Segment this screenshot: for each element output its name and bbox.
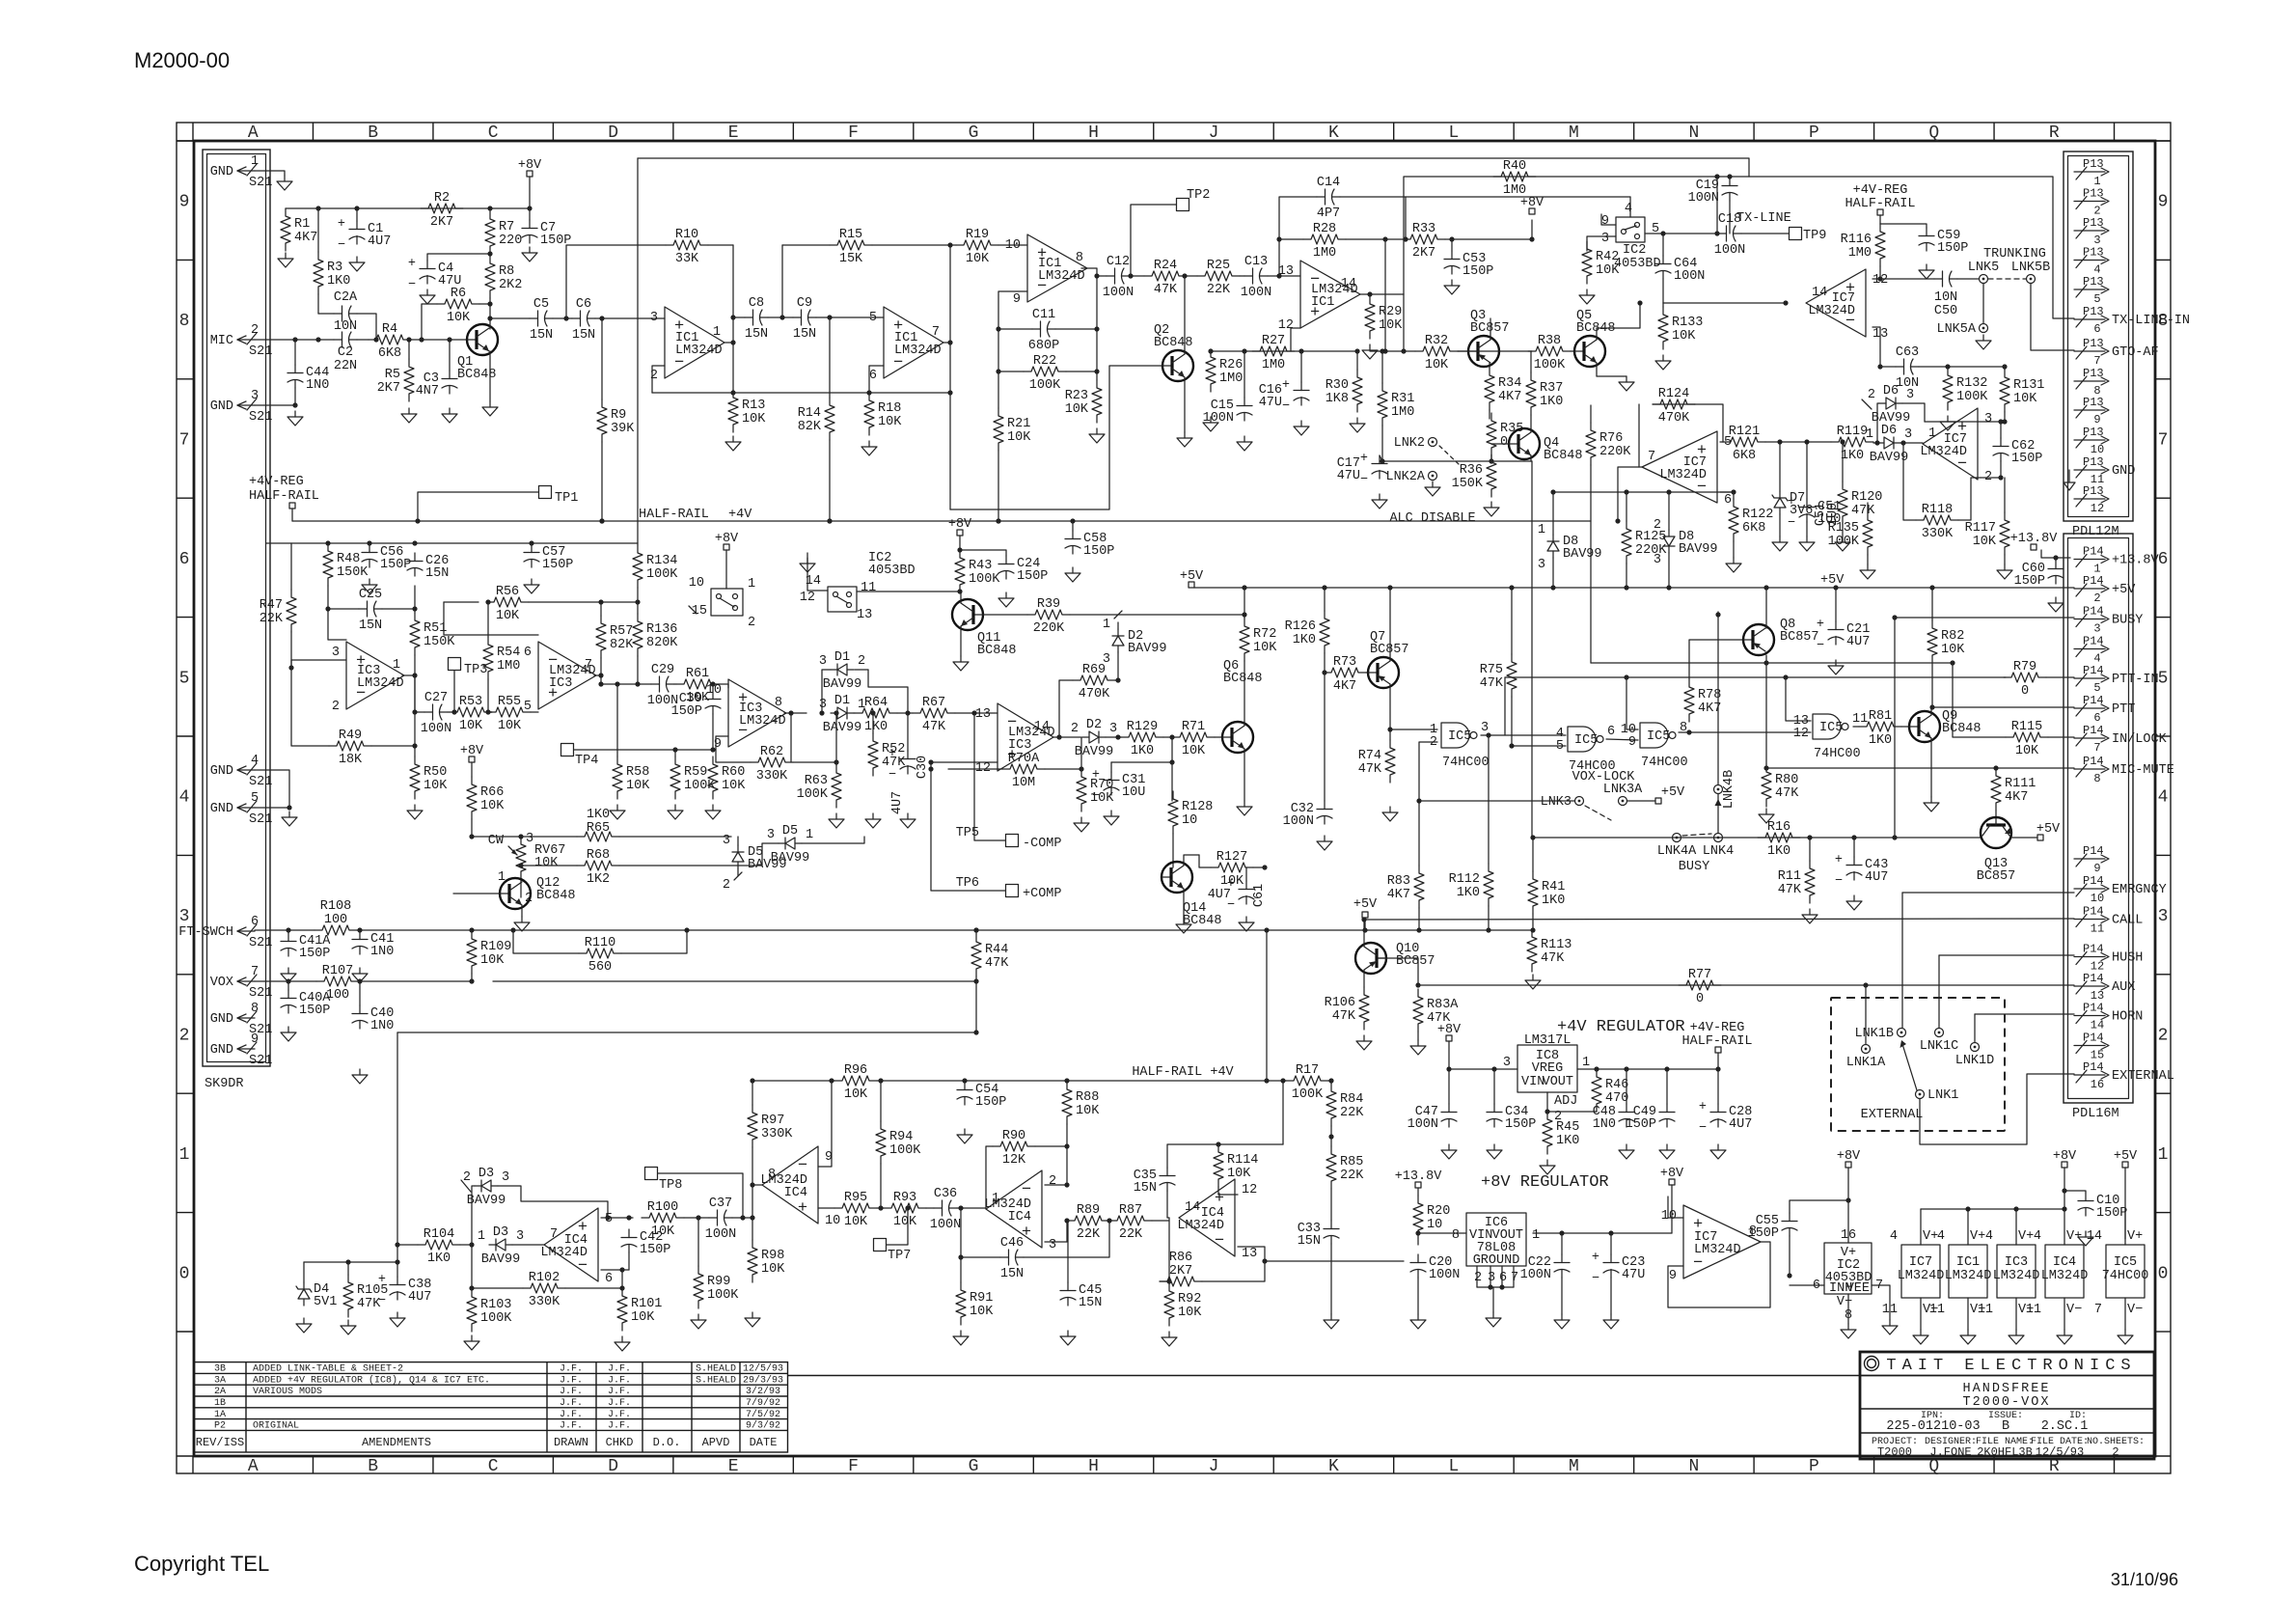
wire IC3b out line	[601, 683, 651, 685]
svg-text:IC4: IC4	[784, 1186, 807, 1200]
svg-text:820K: 820K	[646, 636, 678, 650]
svg-text:APVD: APVD	[702, 1436, 730, 1449]
svg-text:LM324D: LM324D	[1808, 304, 1855, 318]
svg-text:2: 2	[2158, 1027, 2169, 1046]
wire IC3d output	[1053, 736, 1080, 738]
svg-text:R128: R128	[1182, 800, 1213, 814]
svg-text:T2000: T2000	[1877, 1445, 1912, 1459]
wire IC7 V-	[1920, 1298, 1922, 1330]
svg-text:LM324D: LM324D	[357, 676, 404, 691]
svg-text:10K: 10K	[2013, 392, 2037, 406]
wire	[1115, 679, 1118, 681]
resistor R116	[1841, 224, 1885, 266]
wire IC7b output stub	[1618, 467, 1642, 521]
wire IC4d pin6 loop	[601, 1269, 629, 1271]
resistor R41	[1528, 871, 1565, 914]
transistor Q12	[500, 876, 576, 909]
grid column divider	[1153, 123, 1155, 141]
capacitor C32	[1283, 801, 1332, 829]
wire D3 pin2 slash	[461, 1180, 471, 1192]
resistor R61	[676, 667, 719, 705]
wire	[802, 837, 864, 843]
wire IC2b pin15 slash	[689, 606, 697, 614]
svg-text:4053BD: 4053BD	[1614, 257, 1661, 271]
wire R110 loop	[471, 929, 473, 931]
resistor R117	[1965, 512, 2009, 555]
svg-text:1K0: 1K0	[327, 274, 350, 289]
wire	[1418, 908, 1420, 930]
wire	[816, 316, 884, 318]
svg-text:K: K	[1328, 1457, 1339, 1476]
svg-text:0: 0	[2021, 684, 2029, 699]
wire IC1a output riser	[732, 245, 734, 393]
svg-text:S21: S21	[249, 1054, 272, 1068]
svg-text:2K7: 2K7	[1412, 246, 1435, 261]
pin P14 13	[2074, 972, 2135, 1003]
wire	[601, 318, 603, 399]
svg-text:3: 3	[819, 654, 827, 669]
svg-text:100N: 100N	[705, 1227, 736, 1242]
op-amp IC7	[1920, 408, 1992, 484]
ground	[1710, 1144, 1726, 1159]
svg-text:74HC00: 74HC00	[2102, 1269, 2149, 1283]
wire	[472, 1287, 523, 1289]
wire	[600, 658, 602, 684]
svg-text:R55: R55	[498, 695, 521, 709]
wire IC3d + input	[931, 761, 998, 763]
svg-text:47K: 47K	[922, 720, 946, 734]
wire IC1a inv loop	[652, 366, 665, 393]
capacitor C40A	[281, 990, 331, 1018]
svg-text:J.F.: J.F.	[608, 1410, 631, 1420]
wire	[512, 1244, 544, 1246]
ground	[482, 401, 498, 416]
svg-text:4: 4	[2158, 788, 2169, 808]
ground	[1060, 1331, 1076, 1345]
svg-text:P14: P14	[2083, 574, 2104, 588]
svg-text:10: 10	[1661, 1209, 1677, 1224]
grid column divider	[1753, 123, 1755, 141]
ground	[957, 1129, 972, 1143]
test point TP3	[449, 658, 488, 678]
svg-text:10K: 10K	[626, 779, 650, 793]
svg-text:R133: R133	[1672, 316, 1703, 330]
wire TP2 riser	[1131, 205, 1176, 276]
capacitor C53	[1444, 251, 1493, 279]
svg-text:B: B	[368, 124, 378, 143]
svg-text:100K: 100K	[1956, 390, 1988, 404]
svg-text:100N: 100N	[1429, 1268, 1460, 1282]
ground	[1410, 1040, 1426, 1055]
svg-text:33K: 33K	[675, 252, 699, 266]
wire IC2c pin11 line	[857, 591, 960, 592]
ground	[1444, 280, 1460, 294]
resistor R76	[1586, 423, 1631, 465]
capacitor C5	[530, 297, 553, 343]
wire R65 right	[619, 836, 731, 838]
svg-text:EXTERNAL: EXTERNAL	[2112, 1069, 2174, 1084]
svg-text:4: 4	[1890, 1229, 1898, 1244]
svg-text:TX-LINE-IN: TX-LINE-IN	[2112, 314, 2190, 328]
wire	[1610, 1278, 1612, 1314]
resistor R36	[1452, 454, 1496, 497]
svg-text:1K0: 1K0	[864, 720, 888, 734]
svg-text:+: +	[1788, 495, 1795, 509]
op-amp IC7	[1806, 269, 1888, 342]
svg-text:BC848: BC848	[536, 889, 576, 903]
svg-text:LNK4A: LNK4A	[1657, 844, 1697, 859]
ground	[1554, 1314, 1570, 1329]
ground	[281, 1027, 296, 1041]
svg-text:10K: 10K	[893, 1215, 917, 1229]
svg-text:7/5/92: 7/5/92	[746, 1409, 780, 1420]
svg-text:P14: P14	[2083, 724, 2104, 737]
wire IC1b output riser	[949, 245, 951, 393]
wire	[291, 509, 293, 521]
svg-text:12/5/93: 12/5/93	[2036, 1445, 2084, 1459]
svg-text:LM324D: LM324D	[675, 344, 723, 358]
svg-text:J.F.: J.F.	[560, 1387, 583, 1397]
svg-text:LM324D: LM324D	[1177, 1219, 1224, 1233]
pin P14 14	[2074, 1002, 2143, 1032]
wire	[427, 254, 490, 261]
svg-text:+COMP: +COMP	[1023, 887, 1062, 901]
svg-text:R44: R44	[985, 943, 1008, 957]
wire	[382, 586, 415, 609]
wire IC6 ground pins	[1476, 1266, 1478, 1287]
svg-text:BAV99: BAV99	[1679, 542, 1718, 557]
svg-text:+: +	[1092, 768, 1100, 783]
svg-text:4U7: 4U7	[890, 791, 905, 814]
wire	[1919, 366, 2005, 368]
svg-text:150P: 150P	[2096, 1206, 2127, 1221]
wire IC4 V+	[2064, 1209, 2065, 1245]
wire	[1733, 492, 1735, 499]
svg-text:14: 14	[1812, 286, 1827, 300]
svg-text:D: D	[608, 124, 618, 143]
svg-text:R43: R43	[969, 559, 992, 573]
svg-text:HALF-RAIL: HALF-RAIL	[249, 489, 319, 504]
svg-text:100N: 100N	[1203, 411, 1234, 426]
svg-text:7: 7	[2094, 1303, 2102, 1317]
svg-text:9: 9	[179, 193, 190, 212]
svg-text:F: F	[848, 124, 859, 143]
svg-text:R114: R114	[1227, 1153, 1258, 1168]
svg-text:150P: 150P	[1017, 569, 1048, 584]
wire R84 chain	[1330, 1081, 1332, 1084]
svg-text:R119: R119	[1837, 425, 1868, 439]
resistor R27	[1252, 334, 1295, 372]
svg-text:R104: R104	[424, 1227, 454, 1242]
svg-text:R86: R86	[1169, 1251, 1192, 1265]
ground	[1525, 975, 1541, 989]
svg-text:R87: R87	[1119, 1203, 1142, 1218]
svg-text:100N: 100N	[1714, 243, 1745, 258]
svg-text:IC3: IC3	[1008, 738, 1031, 753]
svg-text:2: 2	[1654, 518, 1661, 533]
svg-text:R23: R23	[1065, 389, 1088, 403]
svg-text:10K: 10K	[480, 799, 505, 813]
wire	[1596, 1111, 1598, 1113]
pin P14 4	[2074, 635, 2109, 666]
svg-text:2: 2	[650, 369, 658, 383]
svg-text:−: −	[1788, 516, 1795, 531]
svg-text:R70A: R70A	[1008, 752, 1040, 766]
wire	[998, 371, 1024, 372]
wire	[290, 543, 292, 590]
capacitor C14	[1317, 176, 1340, 221]
svg-text:7: 7	[2093, 354, 2100, 368]
ground	[705, 805, 721, 819]
diode D3	[463, 1167, 509, 1208]
resistor R22	[1024, 354, 1066, 393]
svg-text:R126: R126	[1285, 619, 1316, 634]
svg-text:PTT: PTT	[2112, 702, 2135, 717]
svg-text:TP9: TP9	[1803, 229, 1826, 243]
resistor R120	[1838, 481, 1882, 524]
svg-text:5: 5	[869, 311, 877, 325]
svg-text:9: 9	[2158, 193, 2169, 212]
wire CALL line	[1364, 919, 2074, 920]
power +8V	[460, 744, 484, 762]
resistor R100	[642, 1200, 684, 1239]
svg-text:10K: 10K	[1379, 318, 1403, 333]
bottom letter band line	[177, 1455, 2171, 1457]
wire IC5a input1	[1390, 729, 1437, 730]
power box IC1	[1929, 1229, 1992, 1317]
svg-text:100N: 100N	[1103, 286, 1134, 300]
wire IC7c pin12 line	[1872, 278, 1934, 280]
ground	[407, 805, 423, 819]
ground	[1074, 817, 1089, 832]
wire IC3c inv loop	[716, 736, 751, 762]
resistor R73	[1324, 655, 1366, 694]
svg-text:150P: 150P	[299, 947, 330, 961]
svg-text:13: 13	[975, 707, 991, 722]
svg-text:A: A	[248, 124, 259, 143]
wire	[1695, 404, 1723, 442]
power box IC4	[2026, 1229, 2089, 1317]
wire	[1662, 303, 1664, 307]
wire	[1066, 1124, 1068, 1185]
wire	[1552, 558, 1554, 588]
svg-text:LNK5A: LNK5A	[1936, 322, 1976, 337]
svg-text:4: 4	[251, 754, 259, 768]
svg-text:GND: GND	[210, 802, 233, 816]
wire	[1215, 736, 1222, 738]
svg-text:R17: R17	[1296, 1063, 1319, 1078]
svg-text:4K7: 4K7	[1387, 888, 1410, 902]
resistor R16	[1758, 820, 1800, 859]
svg-text:14: 14	[1034, 720, 1050, 734]
ground	[1372, 494, 1387, 509]
svg-text:6K8: 6K8	[378, 346, 401, 361]
wire C27 line	[415, 711, 424, 713]
resistor R95	[834, 1191, 877, 1229]
svg-text:10K: 10K	[496, 609, 520, 623]
wire	[1853, 838, 1855, 857]
pin P13 5	[2074, 275, 2109, 306]
wire	[948, 768, 1002, 770]
wire	[1346, 238, 1403, 240]
svg-text:2: 2	[1984, 470, 1992, 484]
svg-text:150P: 150P	[1748, 1226, 1779, 1241]
svg-text:R63: R63	[805, 774, 828, 788]
svg-text:4U7: 4U7	[408, 1290, 431, 1305]
ground	[1382, 807, 1398, 821]
svg-text:47K: 47K	[1775, 786, 1799, 801]
resistor R33	[1403, 222, 1445, 261]
svg-text:TX-LINE: TX-LINE	[1736, 211, 1791, 226]
svg-text:4N7: 4N7	[416, 384, 439, 399]
grid row divider	[177, 1212, 194, 1214]
wire	[872, 713, 874, 733]
svg-text:LNK3: LNK3	[1541, 795, 1572, 810]
svg-text:150P: 150P	[299, 1004, 330, 1018]
ground	[615, 1336, 630, 1351]
svg-text:S21: S21	[249, 410, 272, 425]
wire LNK1 to EXTERNAL pin	[1920, 1074, 2074, 1144]
resistor R86	[1160, 1251, 1202, 1286]
svg-text:IC5: IC5	[1647, 729, 1670, 744]
svg-text:4U7: 4U7	[1729, 1117, 1752, 1132]
ground	[522, 247, 537, 261]
bus V+ row0	[1921, 1208, 2064, 1210]
svg-text:R45: R45	[1556, 1120, 1579, 1135]
svg-text:1: 1	[806, 828, 813, 842]
svg-text:BUSY: BUSY	[1679, 860, 1709, 874]
svg-text:100: 100	[324, 913, 347, 927]
wire D3 upper branch	[472, 1186, 475, 1245]
wire	[964, 1081, 966, 1082]
svg-text:220: 220	[499, 234, 522, 248]
wire	[697, 1218, 699, 1266]
pin P14 8	[2074, 755, 2174, 785]
svg-text:1M0: 1M0	[1848, 246, 1872, 261]
nand gate IC5c	[1621, 721, 1688, 770]
svg-text:6: 6	[605, 1272, 613, 1286]
ground	[998, 592, 1014, 607]
resistor R74	[1358, 740, 1395, 783]
ground	[691, 1314, 706, 1329]
link LNK1D	[1955, 1043, 1995, 1069]
svg-text:3: 3	[1109, 722, 1117, 736]
svg-text:10: 10	[706, 683, 722, 698]
bus HALF-RAIL row2	[752, 1080, 834, 1082]
wire LNK4B to bus	[1717, 612, 1719, 784]
svg-text:TP5: TP5	[956, 826, 979, 840]
capacitor C21	[1817, 618, 1870, 653]
wire	[359, 981, 361, 1005]
capacitor C33	[1298, 1221, 1339, 1249]
ground	[442, 408, 457, 423]
svg-text:R26: R26	[1219, 358, 1243, 372]
wire R75 bottom to IC5b pin5	[1512, 697, 1566, 746]
svg-text:R118: R118	[1922, 503, 1953, 517]
svg-text:100N: 100N	[1674, 269, 1705, 284]
svg-text:470: 470	[1605, 1091, 1628, 1106]
svg-text:4: 4	[1985, 1229, 1993, 1244]
wire LNK3A to +5V	[1627, 800, 1655, 802]
wire	[2046, 676, 2074, 678]
wire IC2f pin7	[1872, 1285, 1890, 1320]
wire	[529, 177, 531, 208]
svg-text:BC857: BC857	[1977, 869, 2016, 884]
capacitor C61	[1227, 877, 1254, 913]
ground	[1540, 1160, 1555, 1174]
grid column divider	[672, 123, 674, 141]
wire	[793, 761, 836, 763]
capacitor C16	[1259, 378, 1309, 414]
svg-text:VARIOUS MODS: VARIOUS MODS	[253, 1387, 322, 1397]
svg-text:BC857: BC857	[1470, 321, 1510, 336]
resistor R105	[343, 1275, 388, 1317]
wire IC3c output	[784, 712, 806, 714]
wire Q5 stage	[1458, 350, 1532, 352]
svg-text:LM324D: LM324D	[1659, 468, 1707, 482]
svg-text:1K0: 1K0	[1869, 733, 1892, 748]
svg-text:680P: 680P	[1028, 339, 1059, 353]
svg-text:R125: R125	[1635, 530, 1666, 544]
svg-text:225-01210-03: 225-01210-03	[1886, 1419, 1980, 1434]
capacitor C2	[334, 332, 357, 373]
capacitor C63	[1896, 345, 1919, 391]
resistor R10	[666, 228, 708, 266]
wire	[1493, 1069, 1495, 1104]
resistor R132	[1943, 368, 1988, 410]
ground	[829, 813, 844, 828]
wire IC4b pin2	[1045, 1184, 1067, 1186]
ground	[1960, 1330, 1976, 1344]
svg-text:3: 3	[502, 1170, 509, 1185]
svg-text:1K2: 1K2	[587, 872, 610, 887]
capacitor C41	[352, 931, 394, 959]
wire R40 feedback line	[1404, 177, 2074, 318]
svg-text:R33: R33	[1412, 222, 1435, 236]
power +8V	[2053, 1149, 2077, 1168]
ground	[2009, 1330, 2024, 1344]
wire R90 feedback	[986, 1146, 993, 1209]
svg-text:22N: 22N	[334, 359, 357, 373]
ground	[953, 1331, 969, 1345]
wire IC2 pin9	[1601, 214, 1616, 225]
svg-text:150P: 150P	[542, 558, 573, 572]
wire	[414, 609, 416, 613]
svg-text:FT-SWCH: FT-SWCH	[178, 925, 233, 940]
wire IC4b pin3 line	[1045, 1221, 1067, 1242]
resistor R89	[1067, 1203, 1109, 1242]
svg-text:R22: R22	[1033, 354, 1056, 369]
wire	[732, 1217, 752, 1219]
ground	[1484, 502, 1499, 516]
wire	[303, 1262, 305, 1282]
svg-text:TP1: TP1	[555, 491, 578, 506]
wire IC7c pin13	[1872, 327, 1880, 367]
svg-text:R34: R34	[1498, 376, 1521, 391]
svg-text:10: 10	[2091, 443, 2104, 456]
wire IC4c out line to HORN riser	[1265, 1260, 1404, 1262]
svg-text:100K: 100K	[969, 572, 1000, 587]
pin P14 3	[2074, 605, 2143, 636]
svg-text:100K: 100K	[707, 1288, 739, 1303]
ground	[1659, 1144, 1675, 1159]
svg-text:C61: C61	[1252, 884, 1267, 907]
grid column divider	[432, 123, 434, 141]
svg-text:R134: R134	[646, 554, 677, 568]
resistor R65	[577, 808, 619, 841]
wire	[294, 340, 296, 365]
svg-text:100K: 100K	[797, 787, 829, 802]
